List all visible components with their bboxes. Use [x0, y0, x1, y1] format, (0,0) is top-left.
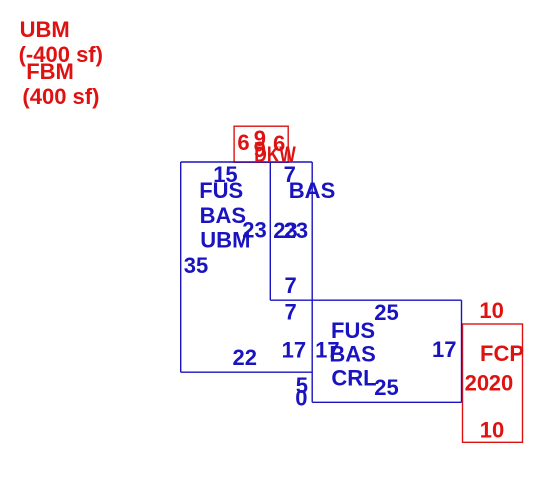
svg-text:17: 17: [432, 337, 456, 362]
svg-text:17: 17: [282, 338, 306, 363]
svg-text:0: 0: [295, 386, 307, 411]
svg-text:FCP: FCP: [480, 341, 524, 366]
svg-text:7: 7: [285, 300, 297, 325]
svg-text:25: 25: [374, 300, 398, 325]
svg-text:BAS: BAS: [329, 342, 375, 367]
wall: area C right wall, 17 ft: [461, 300, 463, 402]
svg-text:DKW: DKW: [254, 142, 296, 167]
wall: area B bottom wall / area C top wall: [270, 299, 461, 301]
svg-text:10: 10: [480, 418, 504, 443]
svg-text:FUS: FUS: [199, 178, 243, 203]
svg-text:(400 sf): (400 sf): [22, 84, 99, 109]
wall: shared wall between area A and area B, 23 ft: [269, 162, 271, 300]
svg-text:10: 10: [479, 298, 503, 323]
svg-text:22: 22: [233, 345, 257, 370]
wall: area A bottom wall, 22 ft: [181, 371, 313, 373]
wall: right wall of area B continuing as area A right wall, 17 ft: [311, 162, 313, 402]
svg-text:BAS: BAS: [200, 203, 246, 228]
svg-text:CRL: CRL: [331, 365, 376, 390]
svg-text:FBM: FBM: [26, 59, 74, 84]
DKW deck outline, 9 x 6 ft: [234, 126, 288, 162]
svg-text:20: 20: [465, 371, 489, 396]
wall: area A / area B top wall: [181, 161, 313, 163]
svg-text:20: 20: [489, 371, 513, 396]
svg-text:35: 35: [184, 253, 208, 278]
svg-text:25: 25: [374, 375, 398, 400]
wall: area C bottom wall, 25 ft: [312, 401, 461, 403]
wall: area A left wall, 35 ft: [180, 162, 182, 372]
svg-text:UBM: UBM: [20, 17, 70, 42]
FCP carport outline, 10 x 20 ft: [463, 324, 523, 442]
svg-text:6: 6: [237, 130, 249, 155]
svg-text:UBM: UBM: [200, 228, 250, 253]
svg-text:23: 23: [284, 218, 308, 243]
svg-text:BAS: BAS: [289, 178, 335, 203]
svg-text:7: 7: [285, 273, 297, 298]
